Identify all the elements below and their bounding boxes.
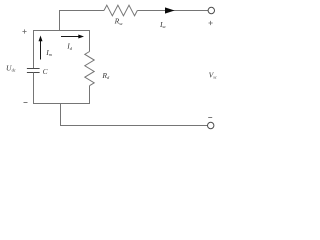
label V_sc [209,70,217,79]
terminal top right (open circle) [208,7,214,13]
label U_dc [6,63,16,72]
wire vertical stub from loop down to bottom rail [60,103,62,126]
current arrow I_sc (solid triangle on top wire) [165,7,175,13]
wire top rail left segment [60,10,105,12]
minus sign at bottom-right terminal [208,117,212,119]
resistor R_d zigzag (vertical) [85,52,94,86]
wire vertical stub from top rail down to loop [59,10,61,31]
label R_d [101,71,110,80]
label R_sc [114,17,123,26]
wire R_d branch upper [89,30,91,52]
label I_d [66,42,73,51]
label I_sc [159,20,166,29]
wire capacitor branch lower [33,73,35,105]
svg-text:dc: dc [12,68,16,73]
wire loop top rail [33,30,90,32]
plus sign left (capacitor polarity) [22,29,26,33]
plus sign at top-right terminal [209,21,213,25]
current arrow I_d (horizontal, inside loop) [61,35,84,39]
svg-text:sc: sc [119,21,123,26]
svg-text:sc: sc [213,75,217,80]
svg-text:d: d [107,75,110,80]
terminal bottom right (open circle) [208,122,214,128]
resistor R_sc zigzag [104,5,137,16]
label I_m [45,48,52,57]
minus sign left (capacitor polarity) [24,102,28,104]
wire top rail right segment [137,10,208,12]
wire capacitor branch upper [33,30,35,68]
svg-text:d: d [70,46,73,51]
svg-text:C: C [43,67,48,76]
current arrow I_m (vertical, inside loop) [39,36,43,60]
svg-text:sc: sc [162,24,166,29]
wire bottom rail [61,125,208,127]
wire R_d branch lower [89,86,91,104]
svg-text:m: m [49,52,52,57]
capacitor C plates [27,69,40,73]
wire loop bottom rail [33,103,90,105]
